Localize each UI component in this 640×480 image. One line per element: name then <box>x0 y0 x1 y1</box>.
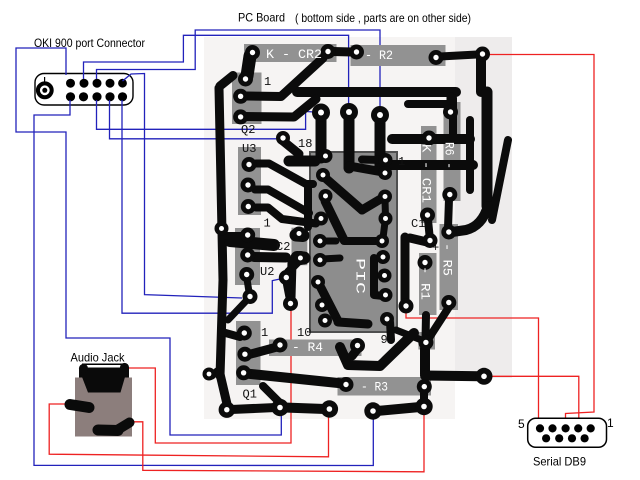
trace Q1 pin2 to R4 <box>249 347 277 355</box>
pad V <box>399 299 414 314</box>
footprint CR2 <box>244 44 337 62</box>
trace pad K stub <box>375 119 386 169</box>
trace PIC L7 diag <box>318 282 338 321</box>
wire BW3 <box>97 100 316 129</box>
footprint PIC U1 <box>310 152 397 332</box>
wire BW4 <box>110 100 277 139</box>
pad U3 pin2 <box>241 178 256 193</box>
pad Q1 pin1 <box>237 326 252 341</box>
svg-text:- R1: - R1 <box>418 266 433 300</box>
trace right rail <box>482 92 493 206</box>
svg-text:18: 18 <box>298 137 312 151</box>
pad C2 top <box>292 227 306 241</box>
trace PIC bottom bar <box>338 322 368 324</box>
pad P <box>279 270 294 285</box>
pad Q blue <box>243 289 258 304</box>
pad bottomleft small <box>203 368 216 381</box>
svg-text:U3: U3 <box>242 142 256 156</box>
trace rail-U2 pin1 link <box>227 232 250 240</box>
trace R1pad-PIC diag <box>396 330 424 341</box>
wire BW1 <box>16 48 281 435</box>
svg-text:9: 9 <box>381 333 388 347</box>
footprint R6 <box>444 102 461 201</box>
trace right bend <box>452 206 488 232</box>
pad R3 right <box>417 379 432 394</box>
wire RW1 <box>489 55 594 425</box>
trace R6 top stub <box>447 96 455 108</box>
trace E drop <box>476 58 486 92</box>
wire RW5 <box>49 404 328 457</box>
trace PIC L6 nub <box>322 258 340 259</box>
trace PIC L2 diag <box>323 176 362 210</box>
svg-text:- R5: - R5 <box>440 243 455 276</box>
wire BW2 <box>34 100 373 466</box>
trace right diag <box>492 140 508 220</box>
footprint R3 <box>338 377 432 396</box>
audio jack bottom pin <box>98 425 118 437</box>
pad A CR2 left <box>245 45 260 60</box>
svg-text:1: 1 <box>264 217 271 231</box>
pad K <box>371 106 389 124</box>
pad CR1 top <box>422 131 437 146</box>
footprint R4 <box>269 340 362 357</box>
trace U3 pin2 cascade <box>255 190 309 214</box>
svg-text:PC Board: PC Board <box>238 11 285 25</box>
trace U2 bottom drop <box>247 279 249 294</box>
trace R6 neck <box>449 98 457 134</box>
footprint Q1 <box>236 321 261 385</box>
trace band 2 <box>391 160 473 170</box>
trace B-C link <box>333 47 352 57</box>
PCB scan background <box>204 37 455 419</box>
pad R3 left <box>339 377 354 392</box>
trace Q drop diag <box>228 301 246 320</box>
trace left rail <box>219 88 223 376</box>
trace PIC18 drop <box>390 322 391 340</box>
trace P-X link <box>287 282 291 300</box>
trace PIC bar to rpad5 <box>344 237 380 245</box>
trace PIC r34 link <box>382 200 390 217</box>
trace bottom pads link 1 <box>231 408 276 410</box>
svg-text:- R2: - R2 <box>365 48 393 63</box>
trace pad L drop <box>283 141 299 154</box>
pad Q1 pin3 <box>236 365 251 380</box>
pad U3 pin1 <box>242 157 257 172</box>
OKI connector body <box>35 74 133 106</box>
pad U2 pin3 <box>239 267 254 282</box>
trace U3 pin1 cascade <box>256 164 313 185</box>
trace bottom pads link 2 <box>284 408 325 410</box>
svg-text:K - CR2: K - CR2 <box>266 47 322 62</box>
audio jack left pin <box>70 405 89 408</box>
pad R5 top <box>441 225 456 240</box>
wire RW3 <box>489 376 579 424</box>
trace Q2 pin2 bar and diag to B <box>246 58 323 97</box>
trace PIC L3 diag <box>325 201 344 240</box>
footprint R2 <box>351 45 446 66</box>
pad U2 pin2 <box>240 248 255 263</box>
svg-text:R6 -: R6 - <box>442 142 457 169</box>
trace band 1 <box>392 134 470 144</box>
trace Y diag <box>263 386 280 403</box>
pad U <box>415 398 432 415</box>
svg-text:PIC: PIC <box>353 258 368 294</box>
trace top bar lower <box>408 100 452 108</box>
pad D R2 right <box>429 50 444 65</box>
pad Q1 pin2 <box>237 347 252 362</box>
pads PIC left column <box>311 149 333 328</box>
pad I <box>312 104 330 122</box>
trace right rail 2 <box>466 120 474 190</box>
pad Y <box>271 399 288 416</box>
svg-text:Q1: Q1 <box>243 388 257 402</box>
svg-text:1: 1 <box>398 155 405 169</box>
trace rail-Q1 hook <box>222 332 240 337</box>
trace pad I stub <box>316 116 327 158</box>
pad J <box>340 103 358 121</box>
svg-text:1: 1 <box>264 75 271 89</box>
pad R6 bottom <box>442 187 457 202</box>
svg-text:K - CR1: K - CR1 <box>419 144 434 203</box>
trace A to Q2 pin1 <box>247 56 250 76</box>
trace U2 top bar <box>230 241 274 245</box>
pad R1 bottom <box>418 335 433 350</box>
OKI connector pins <box>66 79 127 102</box>
trace left rail hook <box>220 76 233 87</box>
svg-text:1: 1 <box>607 416 614 430</box>
trace PIC J to rpad2 <box>349 166 383 172</box>
trace Q2 pin3 bar and diag <box>245 99 316 117</box>
trace pad J stub <box>344 116 355 168</box>
trace PIC bar to rpad1 <box>362 156 384 165</box>
trace D-E link <box>440 55 477 57</box>
wire BWT3 <box>97 30 381 108</box>
footprint R1 pad block <box>418 332 435 350</box>
pad X <box>283 296 298 311</box>
pad left rail end <box>215 222 229 236</box>
pad R4 right <box>350 338 365 353</box>
svg-text:Audio Jack: Audio Jack <box>71 351 126 365</box>
pad C2 bottom <box>293 251 307 265</box>
trace R5 diag <box>427 307 449 341</box>
svg-text:U2: U2 <box>260 265 274 279</box>
pad U3 pin3 <box>241 199 256 214</box>
trace U3 pin3 cascade <box>256 208 316 224</box>
svg-text:C1: C1 <box>411 217 425 231</box>
pad Q2 pin1 <box>238 72 253 87</box>
audio jack underline <box>82 363 124 365</box>
trace C2 drop <box>291 262 292 298</box>
DB9 body <box>528 418 607 447</box>
svg-text:+: + <box>432 241 439 255</box>
wire RW6 <box>134 411 424 472</box>
pad L pin18 <box>276 131 290 145</box>
trace Q1bot-R3 bar <box>246 374 343 384</box>
trace R6-R5 link <box>448 199 449 228</box>
trace PIC left edge bar <box>304 186 312 227</box>
footprint Q2 <box>232 73 262 125</box>
wire BWx <box>123 74 243 299</box>
trace R4-R3 V shape <box>340 333 414 366</box>
trace C2 pad blobs <box>296 229 303 243</box>
pad R5 bottom <box>441 295 456 310</box>
audio jack top cap <box>79 368 129 378</box>
footprint CR1 <box>421 126 437 223</box>
pad Q2 pin3 <box>233 109 248 124</box>
pad T <box>364 402 381 419</box>
trace top bar <box>297 87 456 97</box>
footprint R1 <box>419 253 437 315</box>
wire RW4 <box>126 308 291 443</box>
trace CR1-C1 link <box>428 220 430 240</box>
pad E corner <box>475 47 490 62</box>
pad C R2 left <box>349 45 364 60</box>
footprint R5 <box>440 224 459 310</box>
pad W <box>476 368 493 385</box>
pad Q2 pin2 <box>233 89 248 104</box>
svg-text:C2: C2 <box>276 240 290 254</box>
pad R1 top <box>418 255 433 270</box>
svg-text:5: 5 <box>518 417 525 431</box>
svg-text:10: 10 <box>297 326 311 340</box>
pads PIC right column <box>375 153 394 326</box>
footprint C2 <box>292 228 308 266</box>
svg-text:Q2: Q2 <box>241 123 255 137</box>
wire BW5 <box>122 100 280 313</box>
trace PIC vert 374 <box>374 258 384 296</box>
trace R4 right pad nub <box>352 349 358 356</box>
svg-text:Serial DB9: Serial DB9 <box>533 455 586 469</box>
pad C1 <box>423 233 438 248</box>
trace PIC r45 link <box>383 222 385 238</box>
trace U2 mid bar <box>254 252 286 263</box>
OKI connector ring <box>38 83 52 97</box>
pad R6 top <box>443 105 458 120</box>
trace C2 to P <box>288 261 299 272</box>
trace bottom right vert <box>420 348 430 374</box>
trace bottom pads link 3 <box>377 407 420 411</box>
pad U2 pin1 <box>240 228 255 243</box>
wire BWT2 <box>84 35 349 106</box>
pad CR1 bottom <box>420 208 435 223</box>
trace R1 drop <box>422 315 431 340</box>
trace PIC to rpad3 <box>362 197 384 210</box>
svg-text:1: 1 <box>261 326 268 340</box>
trace R3right-U link <box>420 392 428 403</box>
trace PIC L5 nub <box>322 238 336 245</box>
pad R4 left <box>273 338 288 353</box>
svg-text:( bottom side , parts are on o: ( bottom side , parts are on other side) <box>295 11 471 25</box>
svg-text:+: + <box>287 213 294 227</box>
trace bottom right bar <box>425 371 480 382</box>
footprint U2 <box>235 228 260 285</box>
audio jack body <box>75 378 132 437</box>
wire RW2 <box>406 309 539 424</box>
DB9 pins top row <box>536 424 595 432</box>
pad row1 <box>219 402 235 418</box>
pad S <box>321 400 338 417</box>
svg-text:- R3: - R3 <box>361 380 388 395</box>
DB9 pins bottom row <box>542 434 589 442</box>
trace L bar <box>289 156 315 167</box>
trace V rail <box>401 237 410 302</box>
footprint U3 <box>238 147 261 215</box>
svg-text:- R4: - R4 <box>292 340 323 355</box>
trace bottom left pad stub <box>212 371 217 376</box>
pad B CR2 right <box>321 44 336 59</box>
trace left rail bottom hook <box>220 374 227 404</box>
trace C1-V link <box>410 238 427 242</box>
